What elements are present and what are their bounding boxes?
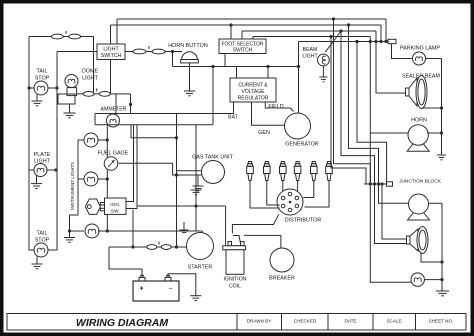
svg-text:IGN.: IGN.: [110, 202, 120, 208]
svg-text:CHECKED: CHECKED: [294, 319, 317, 324]
svg-text:SWITCH: SWITCH: [233, 48, 253, 54]
svg-text:BEAM: BEAM: [303, 47, 318, 53]
svg-text:HORN: HORN: [411, 118, 427, 124]
svg-text:FIELD: FIELD: [268, 104, 283, 110]
svg-text:+: +: [139, 286, 143, 293]
svg-text:TAIL: TAIL: [37, 69, 48, 75]
svg-text:TAIL: TAIL: [37, 231, 48, 237]
svg-text:JUNCTION BLOCK: JUNCTION BLOCK: [399, 178, 442, 184]
svg-text:SWITCH: SWITCH: [101, 53, 122, 59]
svg-text:BREAKER: BREAKER: [269, 276, 295, 282]
svg-text:PLATE: PLATE: [34, 152, 51, 158]
svg-text:COIL: COIL: [229, 284, 241, 290]
svg-text:FUEL GAGE: FUEL GAGE: [98, 151, 129, 157]
svg-text:HORN BUTTON: HORN BUTTON: [168, 43, 208, 49]
svg-text:GENERATOR: GENERATOR: [285, 142, 319, 148]
svg-text:WIRING DIAGRAM: WIRING DIAGRAM: [76, 317, 168, 329]
svg-text:DRAWN BY: DRAWN BY: [247, 319, 272, 324]
svg-text:REGULATOR: REGULATOR: [238, 96, 269, 102]
svg-text:BAT: BAT: [228, 115, 239, 121]
svg-text:LIGHT: LIGHT: [302, 54, 318, 60]
svg-text:GAS TANK UNIT: GAS TANK UNIT: [192, 155, 234, 161]
svg-text:−: −: [168, 286, 172, 293]
svg-text:GEN: GEN: [258, 130, 270, 136]
svg-text:DISTRIBUTOR: DISTRIBUTOR: [285, 218, 322, 224]
svg-text:SHEET NO.: SHEET NO.: [429, 319, 454, 324]
svg-text:AMMETER: AMMETER: [101, 107, 127, 113]
svg-text:DATE: DATE: [345, 319, 357, 324]
svg-text:CURRENT &: CURRENT &: [238, 82, 268, 88]
svg-text:VOLTAGE: VOLTAGE: [242, 89, 266, 95]
svg-text:INSTRUMENT LIGHTS: INSTRUMENT LIGHTS: [70, 162, 75, 210]
svg-text:SW.: SW.: [111, 209, 120, 215]
svg-text:PARKING LAMP: PARKING LAMP: [400, 46, 440, 52]
svg-text:LIGHT: LIGHT: [103, 47, 119, 53]
svg-text:SCALE: SCALE: [386, 319, 401, 324]
svg-text:IGNITION: IGNITION: [223, 277, 246, 283]
svg-text:LIGHT: LIGHT: [82, 76, 99, 82]
svg-text:DOME: DOME: [82, 69, 99, 75]
svg-text:STARTER: STARTER: [188, 265, 213, 271]
